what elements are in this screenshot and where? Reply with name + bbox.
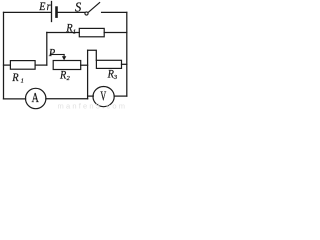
svg-text:1: 1 <box>73 29 76 36</box>
svg-text:S: S <box>75 0 81 15</box>
rheostat R2 box <box>53 61 80 70</box>
rheostat wiper arrow shaft <box>63 55 65 57</box>
battery E r long plate <box>51 2 53 22</box>
battery E r short thick plate <box>55 8 58 17</box>
svg-text:E: E <box>38 0 46 13</box>
wire top left segment <box>4 11 52 13</box>
svg-text:R: R <box>11 70 19 84</box>
wire left frame to R1 box <box>4 64 11 66</box>
ammeter A circle <box>26 88 46 108</box>
svg-text:3: 3 <box>113 74 118 81</box>
wire battery to switch <box>58 11 85 13</box>
voltmeter V circle <box>93 87 114 107</box>
resistor R1 row2 box <box>79 28 104 36</box>
resistor R3 box <box>96 60 121 68</box>
wire right frame <box>126 12 128 96</box>
wire row2 left segment <box>47 32 80 34</box>
svg-text:P: P <box>48 48 55 59</box>
rheostat wiper arrow head <box>62 56 66 60</box>
wire R1 box to node X <box>35 64 47 66</box>
resistor R1 row3 box <box>10 61 35 70</box>
wire R2 right to node M <box>81 64 88 66</box>
wire voltmeter left stub <box>88 95 94 97</box>
wire node X vertical <box>46 32 48 65</box>
svg-text:2: 2 <box>67 75 71 82</box>
wire node M jog to R3 <box>88 50 97 60</box>
wire row2 right segment <box>104 32 127 34</box>
switch S hinge circle <box>85 12 88 15</box>
wire node M vertical <box>87 50 89 99</box>
svg-text:A: A <box>32 90 39 105</box>
svg-text:1: 1 <box>21 78 24 85</box>
svg-text:r: r <box>47 0 51 13</box>
wire R3 to right frame <box>122 63 127 65</box>
wire left frame <box>3 12 5 99</box>
wire switch to top-right corner <box>102 11 127 13</box>
svg-text:manfen5.com: manfen5.com <box>58 101 128 110</box>
wire voltmeter right stub <box>114 95 127 97</box>
wire ammeter to node M <box>46 98 88 100</box>
rheostat wiper P wire <box>51 54 64 56</box>
wire bottom-left to ammeter <box>4 98 26 100</box>
switch S blade <box>88 3 99 13</box>
